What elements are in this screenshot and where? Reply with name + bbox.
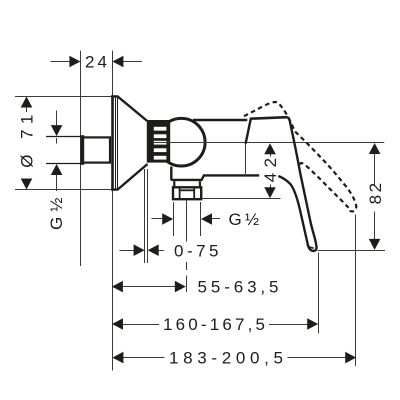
outlet centerline xyxy=(186,201,188,293)
lever blade outline xyxy=(278,117,316,251)
body top edge xyxy=(193,119,247,122)
wire: double extension lines for 0-75 xyxy=(144,169,146,263)
wire: 42 bottom extension line xyxy=(202,198,281,200)
valve body circle xyxy=(158,118,206,166)
dimension 24: line and arrows xyxy=(51,56,143,68)
raised lever inner edge (dashed) xyxy=(300,163,348,208)
wire: extension line from dashed tip (x=356) xyxy=(355,215,357,367)
G 1/2 left leader arrows xyxy=(51,111,63,192)
escutcheon cone bottom edge xyxy=(111,164,147,190)
svg-text:0-75: 0-75 xyxy=(174,241,219,260)
axis line xyxy=(154,142,384,144)
escutcheon cone top edge xyxy=(111,96,147,121)
union nut left flange bar xyxy=(81,135,85,165)
union nut square xyxy=(82,137,110,162)
lever tip inner detail xyxy=(307,245,314,248)
escutcheon rim lines xyxy=(115,97,117,188)
G 1/2 right dimension xyxy=(152,202,221,236)
wire: top extension line of diameter 71 xyxy=(15,96,113,98)
svg-text:183-200,5: 183-200,5 xyxy=(169,349,283,368)
dimension 42 xyxy=(264,143,276,198)
raised lever outer edge (dashed) xyxy=(280,104,356,204)
wire: wall extension line (x=112.3) xyxy=(112,51,114,371)
outlet nut xyxy=(173,187,201,199)
wire: lever tip extension line at y=250 xyxy=(318,250,385,252)
dimension 183-200,5 xyxy=(112,352,356,364)
escutcheon face plate xyxy=(111,95,114,190)
adjustment ring (knurled) xyxy=(147,120,170,163)
lever top edge xyxy=(250,117,287,119)
dimension 160-167,5 xyxy=(112,318,318,330)
dimension 0-75 xyxy=(120,244,164,256)
wire: extension line left of 24 dim (x=80.7) xyxy=(80,51,82,266)
svg-text:160-167,5: 160-167,5 xyxy=(163,315,265,334)
wire: pipe stub outline (G 1/2 wall pipe) xyxy=(46,136,81,138)
wire: bottom extension line of diameter 71 xyxy=(15,189,113,191)
lever front edge xyxy=(246,119,251,144)
raised lever top (dashed) xyxy=(244,102,280,116)
body seam line xyxy=(245,143,247,174)
outlet stub xyxy=(173,181,175,187)
dimension 82 xyxy=(369,143,381,250)
svg-text:G ½: G ½ xyxy=(47,198,66,231)
dimension diameter 71: vertical line and arrows xyxy=(21,97,33,190)
svg-text:G ½: G ½ xyxy=(229,210,260,229)
body underside xyxy=(171,167,259,180)
raised lever tip (dashed) xyxy=(349,204,357,211)
wire: extension line from lever tip (x=318.4) xyxy=(318,253,320,334)
dimension 55-63,5 xyxy=(112,281,186,293)
